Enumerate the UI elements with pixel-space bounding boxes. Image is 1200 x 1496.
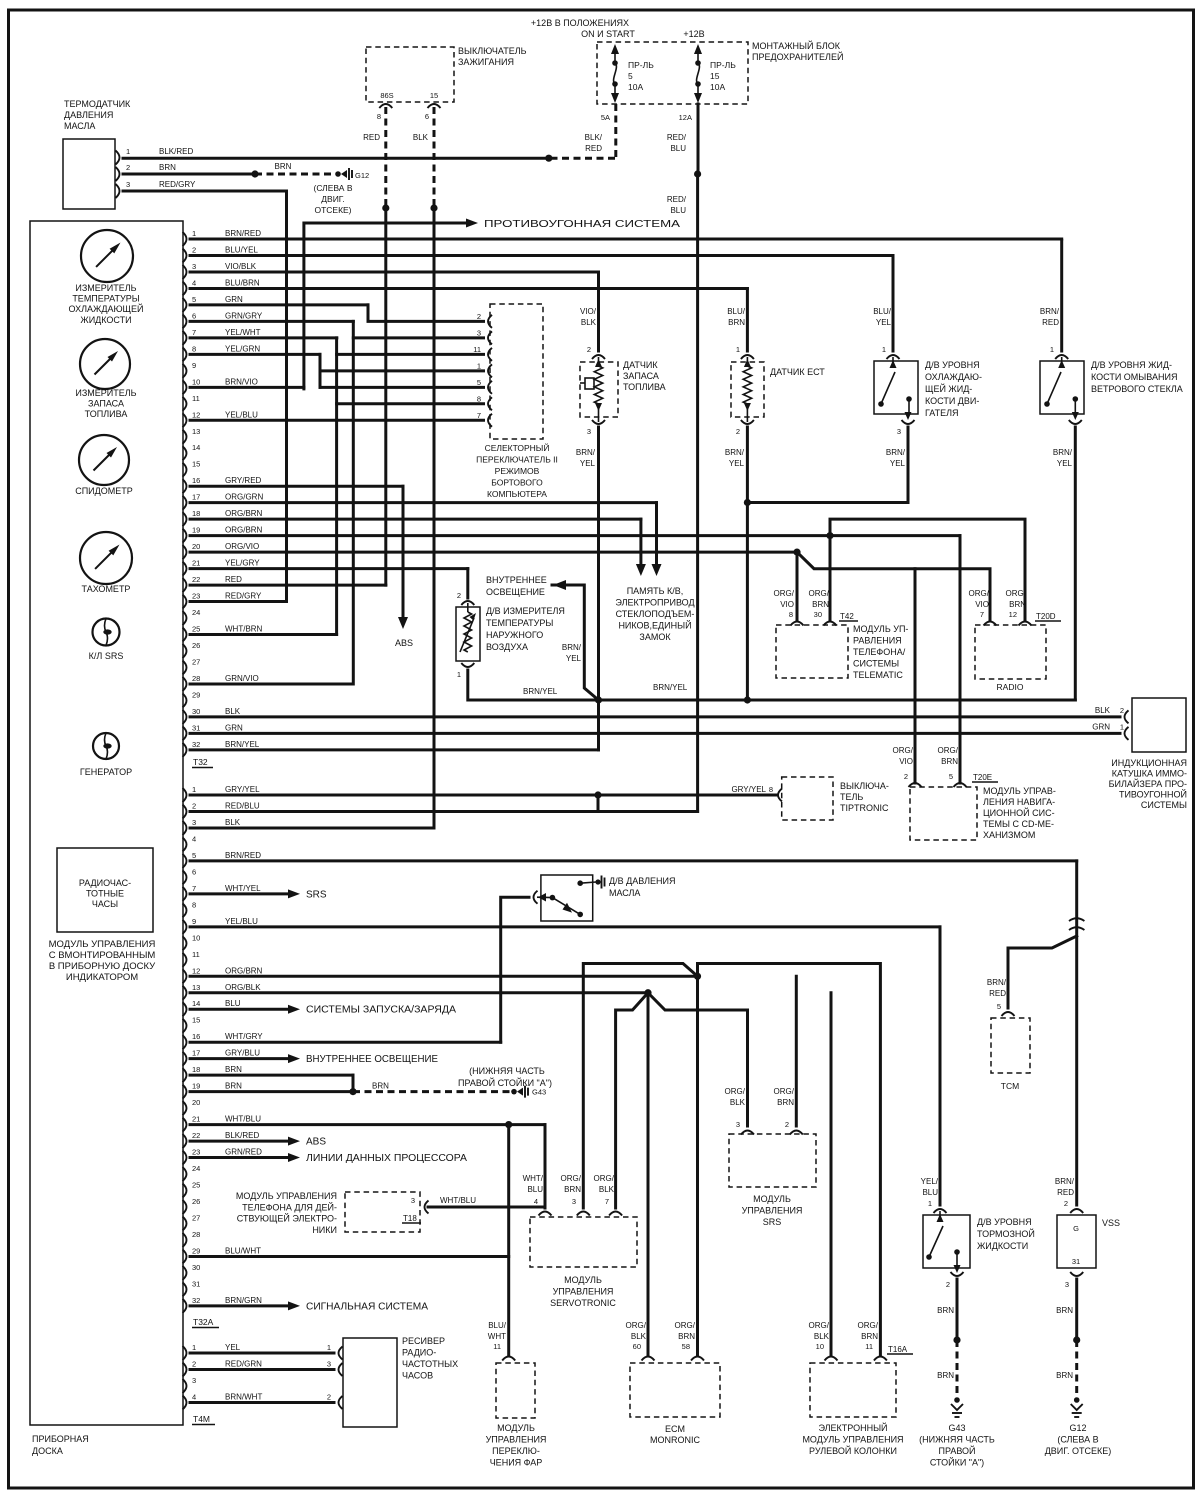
T32A pin 10 bracket [183, 936, 187, 950]
radio box [975, 625, 1046, 679]
svg-text:ЗАМОК: ЗАМОК [639, 632, 671, 642]
svg-text:10: 10 [192, 377, 200, 386]
svg-text:ORG/BRN: ORG/BRN [225, 509, 263, 518]
svg-text:BRN/: BRN/ [1053, 448, 1073, 457]
T32 pin 11 bracket [183, 397, 187, 411]
T32A pin 19 wire BRN [190, 1090, 353, 1093]
svg-text:Д/В УРОВНЯ: Д/В УРОВНЯ [925, 360, 980, 370]
junction dot GRY/YEL row to RED/BLU row link [594, 791, 601, 798]
svg-text:13: 13 [192, 427, 200, 436]
svg-text:3: 3 [736, 1120, 740, 1129]
radio clock receiver box [343, 1338, 397, 1427]
svg-text:25: 25 [192, 625, 200, 634]
svg-text:2: 2 [1120, 706, 1124, 715]
svg-text:10А: 10А [710, 82, 725, 92]
wire RED/BLU from fuse 12A down [697, 104, 700, 135]
svg-text:3: 3 [192, 818, 196, 827]
svg-text:5: 5 [949, 772, 953, 781]
sensor pin 1 bracket [116, 151, 120, 165]
svg-text:СТЕКЛОПОДЪЕМ-: СТЕКЛОПОДЪЕМ- [616, 609, 695, 619]
svg-text:1: 1 [477, 361, 481, 370]
signal system arrow from T32A pin 32 [288, 1301, 300, 1310]
svg-text:ПР-ЛЬ: ПР-ЛЬ [710, 60, 736, 70]
svg-text:5А: 5А [601, 113, 610, 122]
T32A pin 30 bracket [183, 1266, 187, 1280]
svg-text:ВЫКЛЮЧАТЕЛЬ: ВЫКЛЮЧАТЕЛЬ [458, 46, 527, 56]
T32A pin 9 bracket [183, 920, 187, 934]
svg-text:ПЕРЕКЛЮ-: ПЕРЕКЛЮ- [492, 1446, 540, 1456]
T32 pin 2 wire BLU/YEL [190, 254, 893, 257]
svg-text:YEL: YEL [729, 459, 745, 468]
svg-text:ОТСЕКЕ): ОТСЕКЕ) [314, 205, 351, 215]
sensor pin 2 bracket [116, 167, 120, 181]
svg-text:BRN/WHT: BRN/WHT [225, 1393, 262, 1402]
anti-theft system arrow [305, 222, 466, 225]
svg-text:ТИВОУГОННОЙ: ТИВОУГОННОЙ [1119, 789, 1187, 800]
svg-text:2: 2 [126, 163, 130, 172]
svg-text:25: 25 [192, 1181, 200, 1190]
wire BLU/BRN riser from T32 pin4 to ECT sensor [746, 288, 749, 351]
T32 pin 22 bracket [183, 578, 187, 592]
svg-text:ORG/: ORG/ [774, 1087, 795, 1096]
T32A pin 5 wire BRN/RED [190, 859, 1077, 862]
svg-text:YEL/GRY: YEL/GRY [225, 559, 260, 568]
svg-text:BRN/: BRN/ [1040, 307, 1060, 316]
svg-text:5: 5 [628, 71, 633, 81]
svg-text:ORG/: ORG/ [1006, 589, 1027, 598]
T32A pin 15 bracket [183, 1019, 187, 1033]
svg-text:RED/BLU: RED/BLU [225, 801, 260, 810]
svg-text:1: 1 [1120, 723, 1124, 732]
T32 pin 32 wire BRN/YEL [190, 748, 599, 751]
svg-text:BRN: BRN [937, 1306, 954, 1315]
svg-text:3: 3 [572, 1197, 576, 1206]
svg-text:1: 1 [882, 345, 886, 354]
T32A pin 17 bracket [183, 1052, 187, 1066]
svg-text:22: 22 [192, 1131, 200, 1140]
svg-text:ЦИОННОЙ СИС-: ЦИОННОЙ СИС- [983, 807, 1055, 818]
T32 pin 31 wire GRN [190, 732, 1120, 735]
T32 pin 5 wire GRN [190, 303, 368, 306]
svg-text:VSS: VSS [1102, 1218, 1120, 1228]
wire GRN jog T32 pin5 to selector pin 2 [368, 305, 484, 321]
svg-text:BLK/: BLK/ [585, 133, 603, 142]
svg-text:ЧАСОВ: ЧАСОВ [402, 1371, 433, 1381]
svg-text:ВОЗДУХА: ВОЗДУХА [486, 642, 528, 652]
svg-text:BRN/YEL: BRN/YEL [653, 683, 688, 692]
svg-text:1: 1 [192, 785, 196, 794]
T32 pin 1 wire BRN/RED [190, 238, 1062, 241]
svg-text:YEL: YEL [890, 459, 906, 468]
svg-text:BLU/YEL: BLU/YEL [225, 245, 258, 254]
svg-text:BRN/YEL: BRN/YEL [225, 740, 260, 749]
svg-text:КОСТИ ДВИ-: КОСТИ ДВИ- [925, 396, 979, 406]
svg-text:БОРТОВОГО: БОРТОВОГО [491, 478, 543, 488]
svg-text:BRN: BRN [564, 1185, 581, 1194]
svg-text:BLU: BLU [670, 206, 686, 215]
svg-text:20: 20 [192, 1098, 200, 1107]
selector switch pin 1 bracket [488, 364, 492, 377]
svg-text:T18: T18 [403, 1214, 417, 1223]
svg-text:SRS: SRS [763, 1217, 782, 1227]
svg-text:ДАТЧИК: ДАТЧИК [623, 360, 658, 370]
oil pressure switch bracket [534, 891, 538, 904]
wire YEL/GRN riser T32 pin8 down to selector pin 5 row [319, 354, 322, 387]
svg-text:BRN: BRN [225, 1065, 242, 1074]
svg-text:18: 18 [192, 1065, 200, 1074]
svg-text:YEL/BLU: YEL/BLU [225, 410, 258, 419]
wire RED from ignition 86S (dashed then solid) [384, 107, 387, 208]
svg-text:RED: RED [1042, 318, 1059, 327]
wire BLK from ignition 15 (dashed then solid) [433, 107, 436, 208]
svg-text:ПРАВОЙ СТОЙКИ "А"): ПРАВОЙ СТОЙКИ "А") [458, 1077, 552, 1088]
T32 pin 17 bracket [183, 496, 187, 510]
wire GRN/GRY long riser T32 pin6 down to pin28 row [352, 321, 355, 684]
svg-text:8: 8 [769, 785, 773, 794]
svg-text:28: 28 [192, 674, 200, 683]
svg-text:2: 2 [587, 345, 591, 354]
T32A pin 16 wire WHT/GRY [190, 1041, 501, 1044]
sensor pin 3 bracket [116, 184, 120, 198]
dashed BRN wire to ground G43 [353, 1090, 510, 1093]
svg-text:15: 15 [192, 460, 200, 469]
svg-text:К/Л SRS: К/Л SRS [89, 651, 124, 661]
svg-text:11: 11 [192, 394, 200, 403]
T32A pin 17 wire GRY/BLU [190, 1057, 288, 1060]
svg-text:ДВИГ.: ДВИГ. [321, 194, 344, 204]
T32 pin 4 bracket [183, 281, 187, 295]
svg-text:G12: G12 [1069, 1423, 1086, 1433]
T32 pin 20 wire ORG/VIO [190, 551, 797, 554]
svg-text:СИГНАЛЬНАЯ СИСТЕМА: СИГНАЛЬНАЯ СИСТЕМА [306, 1301, 428, 1312]
T32A pin 32 wire BRN/GRN [190, 1304, 288, 1307]
svg-text:ABS: ABS [395, 638, 413, 648]
svg-text:2: 2 [192, 245, 196, 254]
T32A pin 22 bracket [183, 1134, 187, 1148]
svg-text:22: 22 [192, 575, 200, 584]
svg-text:GRY/BLU: GRY/BLU [225, 1049, 260, 1058]
T4M pin 4 bracket [183, 1396, 187, 1410]
svg-text:YEL: YEL [1057, 459, 1073, 468]
ignition switch box (ВЫКЛЮЧАТЕЛЬ ЗАЖИГАНИЯ) [366, 47, 454, 102]
T32 pin 8 wire YEL/GRN [190, 353, 320, 356]
svg-text:ORG/: ORG/ [938, 746, 959, 755]
svg-text:RED: RED [225, 575, 242, 584]
svg-text:BLK: BLK [1095, 706, 1111, 715]
T32 pin 25 wire WHT/BRN [190, 633, 337, 636]
svg-text:ТЕМПЕРАТУРЫ: ТЕМПЕРАТУРЫ [486, 618, 553, 628]
svg-text:SRS: SRS [306, 889, 327, 900]
svg-text:12: 12 [192, 410, 200, 419]
svg-text:2: 2 [946, 1280, 950, 1289]
svg-text:ИНДУКЦИОННАЯ: ИНДУКЦИОННАЯ [1111, 758, 1187, 768]
svg-text:ORG/: ORG/ [858, 1321, 879, 1330]
selector switch box (dashed) [490, 304, 543, 439]
svg-text:3: 3 [897, 427, 901, 436]
svg-text:20: 20 [192, 542, 200, 551]
svg-text:ТАХОМЕТР: ТАХОМЕТР [82, 584, 131, 594]
svg-text:9: 9 [192, 361, 196, 370]
svg-text:8: 8 [789, 610, 793, 619]
junction dot BLK/RED node [545, 155, 552, 162]
svg-text:1: 1 [1050, 345, 1054, 354]
svg-text:РАДИО-: РАДИО- [402, 1348, 436, 1358]
fuel gauge [80, 339, 130, 389]
T32 pin 23 wire RED/GRY [190, 600, 287, 603]
svg-text:29: 29 [192, 690, 200, 699]
svg-text:ПЕРЕКЛЮЧАТЕЛЬ II: ПЕРЕКЛЮЧАТЕЛЬ II [476, 455, 558, 465]
svg-text:YEL: YEL [876, 318, 892, 327]
T32 pin 27 bracket [183, 660, 187, 674]
processor data lines arrow from T32A pin 23 [288, 1153, 300, 1162]
svg-text:BLU/WHT: BLU/WHT [225, 1246, 261, 1255]
brake fluid switch blade [926, 1254, 932, 1260]
svg-text:ВЕТРОВОГО СТЕКЛА: ВЕТРОВОГО СТЕКЛА [1091, 384, 1183, 394]
ignition pin 86S bracket [379, 104, 392, 108]
svg-text:ДОСКА: ДОСКА [32, 1446, 63, 1456]
wire BRN/YEL link to coolant level switch [747, 501, 908, 504]
svg-text:4: 4 [192, 834, 196, 843]
T32A pin 6 bracket [183, 870, 187, 884]
svg-text:С ВМОНТИРОВАННЫМ: С ВМОНТИРОВАННЫМ [49, 950, 156, 961]
T32 pin 15 bracket [183, 463, 187, 477]
wire ORG/BRN branch to SRS module pin 2 [795, 976, 798, 1126]
oil switch blade [550, 895, 556, 901]
junction dot ECT to coolant-switch link [744, 499, 751, 506]
svg-text:РАВЛЕНИЯ: РАВЛЕНИЯ [853, 636, 902, 646]
inline connector chevrons on BRN/RED wire [1069, 918, 1084, 921]
T32 pin 30 bracket [183, 710, 187, 724]
svg-text:3: 3 [327, 1360, 331, 1369]
T32A pin 1 bracket [183, 788, 187, 802]
svg-text:2: 2 [477, 312, 481, 321]
oil pressure switch box [541, 875, 593, 921]
svg-text:RED/GRY: RED/GRY [159, 180, 196, 189]
svg-text:VIO/: VIO/ [580, 307, 597, 316]
T32 pin 21 wire YEL/GRY [190, 567, 468, 570]
svg-text:2: 2 [785, 1120, 789, 1129]
svg-text:60: 60 [633, 1342, 641, 1351]
svg-text:58: 58 [682, 1342, 690, 1351]
svg-text:15: 15 [430, 91, 438, 100]
svg-text:ЧАСЫ: ЧАСЫ [92, 899, 118, 909]
phone module box T18 [345, 1192, 420, 1232]
svg-text:МОДУЛЬ УП-: МОДУЛЬ УП- [853, 624, 908, 634]
fuse 15 10A [694, 44, 702, 54]
svg-text:ORG/BRN: ORG/BRN [225, 966, 263, 975]
T32 pin 19 wire ORG/BRN [190, 534, 960, 537]
svg-text:GRN/VIO: GRN/VIO [225, 674, 259, 683]
T32A pin 25 bracket [183, 1184, 187, 1198]
T32A pin 26 bracket [183, 1200, 187, 1214]
T18 pin 3 bracket [425, 1201, 429, 1214]
headlight switching module box [496, 1363, 535, 1418]
svg-text:T20E: T20E [973, 773, 992, 782]
washer fluid level switch box [1040, 361, 1084, 414]
svg-text:10: 10 [816, 1342, 824, 1351]
svg-text:ORG/: ORG/ [969, 589, 990, 598]
wire GRY/RED T32 pin16 riser to ABS arrow [402, 486, 405, 617]
svg-text:BRN/: BRN/ [1055, 1177, 1075, 1186]
selector switch pin 7 bracket [488, 414, 492, 427]
T32 pin 2 bracket [183, 248, 187, 262]
T32A pin 12 bracket [183, 969, 187, 983]
T32A pin 22 wire BLK/RED [190, 1140, 288, 1143]
wire BRN/YEL from ECT down to BRN/YEL bus [746, 427, 749, 700]
wire RED/GRY from sensor pin 3 to T32 pin 23 riser [123, 191, 287, 602]
svg-text:BLU: BLU [225, 999, 241, 1008]
T32A pin 2 bracket [183, 804, 187, 818]
svg-text:23: 23 [192, 592, 200, 601]
brake fluid switch pin 2 [954, 1265, 961, 1273]
start/charge systems arrow from T32A pin 14 [288, 1005, 300, 1014]
T32A pin 18 bracket [183, 1068, 187, 1082]
svg-text:ДАТЧИК ЕСТ: ДАТЧИК ЕСТ [770, 367, 825, 377]
T32A pin 7 wire WHT/YEL [190, 892, 288, 895]
speedometer gauge [79, 435, 129, 485]
svg-text:14: 14 [192, 999, 200, 1008]
BRN/YEL bus horizontal [599, 699, 1076, 702]
svg-text:TCM: TCM [1001, 1081, 1019, 1091]
junction dot on RED/BLU [694, 170, 701, 177]
junction dot T32 pin19 row at T42 riser [826, 532, 833, 539]
T32 pin 9 bracket [183, 364, 187, 378]
wire ORG/GRN T32 pin17 riser to memory arrow right [655, 503, 658, 565]
wire BRN/RED branch to TCM [1008, 936, 1077, 1008]
svg-text:BRN: BRN [1056, 1306, 1073, 1315]
T32 pin 24 bracket [183, 611, 187, 625]
svg-text:BLU/BRN: BLU/BRN [225, 278, 260, 287]
wire VIO/BLK riser from T32 pin3 to fuel sensor [597, 272, 600, 351]
junction dot ORG/BRN bus T32A pin12 [694, 973, 701, 980]
svg-text:11: 11 [493, 1342, 501, 1351]
fuse 5 10A [611, 44, 619, 54]
svg-text:BLK/RED: BLK/RED [159, 147, 193, 156]
svg-text:6: 6 [192, 867, 196, 876]
T32 pin 21 bracket [183, 562, 187, 576]
svg-text:TIPTRONIC: TIPTRONIC [840, 803, 889, 813]
coil pin 1 bracket [1125, 727, 1129, 740]
svg-text:4: 4 [192, 1393, 196, 1402]
svg-text:5: 5 [192, 295, 196, 304]
T32 pin 12 wire YEL/BLU [190, 419, 484, 422]
T32 pin 26 bracket [183, 644, 187, 658]
svg-text:СПИДОМЕТР: СПИДОМЕТР [75, 486, 133, 496]
wire to selector pin 3 [353, 336, 483, 339]
svg-text:РУЛЕВОЙ КОЛОНКИ: РУЛЕВОЙ КОЛОНКИ [809, 1445, 897, 1456]
svg-text:ПРИБОРНАЯ: ПРИБОРНАЯ [32, 1434, 89, 1444]
svg-text:BRN/: BRN/ [725, 448, 745, 457]
outside air temperature sensor box [456, 607, 480, 661]
svg-text:15: 15 [710, 71, 720, 81]
svg-text:Д/В ИЗМЕРИТЕЛЯ: Д/В ИЗМЕРИТЕЛЯ [486, 606, 565, 616]
T32A pin 24 bracket [183, 1167, 187, 1181]
svg-text:2: 2 [1064, 1199, 1068, 1208]
svg-text:+12В В ПОЛОЖЕНИЯХ: +12В В ПОЛОЖЕНИЯХ [531, 18, 629, 28]
T32 pin 18 wire ORG/BRN [190, 518, 641, 521]
instrument cluster box (ПРИБОРНАЯ ДОСКА) [30, 221, 183, 1425]
svg-text:YEL/: YEL/ [921, 1177, 939, 1186]
T32A pin 29 wire BLU/WHT [190, 1255, 509, 1258]
svg-text:8: 8 [192, 900, 196, 909]
svg-text:ORG/: ORG/ [626, 1321, 647, 1330]
svg-text:WHT/YEL: WHT/YEL [225, 884, 261, 893]
svg-text:GRN: GRN [225, 723, 243, 732]
memory arrow left [636, 564, 646, 576]
wire ORG/BRN jog up-right to steering column module pin 11 [698, 964, 881, 1356]
svg-text:ЧАСТОТНЫХ: ЧАСТОТНЫХ [402, 1359, 458, 1369]
svg-text:10: 10 [192, 933, 200, 942]
svg-text:7: 7 [192, 884, 196, 893]
T32 pin 10 bracket [183, 380, 187, 394]
svg-text:RED/GRN: RED/GRN [225, 1360, 262, 1369]
svg-text:ПРОТИВОУГОННАЯ СИСТЕМА: ПРОТИВОУГОННАЯ СИСТЕМА [484, 219, 680, 230]
wire BRN T32A pin18 corner down to pin19 row [352, 1075, 355, 1091]
svg-text:21: 21 [192, 559, 200, 568]
T32 pin 4 wire BLU/BRN [190, 287, 747, 290]
ABS arrow down [398, 617, 408, 629]
telephone/telematic module box T42 [776, 625, 848, 678]
T32 pin 7 wire YEL/WHT [190, 336, 337, 339]
svg-text:23: 23 [192, 1148, 200, 1157]
wire WHT/GRY T32A pin16 riser to oil pressure switch [501, 897, 529, 1042]
T32 pin 16 wire GRY/RED [190, 485, 403, 488]
svg-text:MONRONIC: MONRONIC [650, 1435, 700, 1445]
T32 pin 29 bracket [183, 693, 187, 707]
svg-text:ТЕРМОДАТЧИК: ТЕРМОДАТЧИК [64, 99, 131, 109]
svg-text:RED/: RED/ [667, 133, 687, 142]
svg-text:ЖИДКОСТИ: ЖИДКОСТИ [977, 1241, 1028, 1251]
svg-text:4: 4 [534, 1197, 538, 1206]
svg-text:RED: RED [585, 144, 602, 153]
svg-text:GRY/YEL: GRY/YEL [731, 785, 766, 794]
svg-text:RADIO: RADIO [997, 682, 1024, 692]
svg-text:ЧЕНИЯ ФАР: ЧЕНИЯ ФАР [490, 1458, 543, 1468]
T32A pin 27 bracket [183, 1216, 187, 1230]
svg-text:BLK: BLK [599, 1185, 615, 1194]
T32A pin 21 wire WHT/BLU [190, 1123, 545, 1126]
wire BRN/RED from T32 pin1 down to washer level switch [1060, 240, 1063, 351]
svg-text:8: 8 [192, 344, 196, 353]
fuel level sensor box (ДАТЧИК ЗАПАСА ТОПЛИВА) [580, 362, 618, 417]
svg-text:BRN: BRN [728, 318, 745, 327]
ECT sensor bottom bracket pin 2 [741, 420, 754, 424]
wire ORG/BRN T32 pin19 corner to nav T20E pin 5 [959, 536, 962, 783]
T32A pin 23 wire GRN/RED [190, 1156, 288, 1159]
T32A pin 8 bracket [183, 903, 187, 917]
svg-text:BLU: BLU [527, 1185, 543, 1194]
T32A pin 1 wire GRY/YEL [190, 794, 777, 797]
svg-text:ABS: ABS [306, 1137, 326, 1148]
svg-text:КАТУШКА ИММО-: КАТУШКА ИММО- [1112, 769, 1187, 779]
svg-text:3: 3 [192, 1376, 196, 1385]
svg-text:GRN: GRN [1092, 723, 1110, 732]
svg-text:(НИЖНЯЯ ЧАСТЬ: (НИЖНЯЯ ЧАСТЬ [469, 1066, 545, 1076]
svg-text:BLK/RED: BLK/RED [225, 1131, 259, 1140]
radio clock box [57, 848, 153, 932]
svg-text:BLK: BLK [413, 133, 429, 142]
svg-text:15: 15 [192, 1016, 200, 1025]
svg-text:ТЕМПЕРАТУРЫ: ТЕМПЕРАТУРЫ [72, 294, 139, 304]
air temp sensor bottom bracket pin 1 [461, 663, 474, 667]
T32 pin 1 bracket [183, 232, 187, 246]
svg-text:YEL/GRN: YEL/GRN [225, 344, 260, 353]
svg-text:WHT/BLU: WHT/BLU [440, 1196, 476, 1205]
svg-text:1: 1 [457, 670, 461, 679]
svg-text:(СЛЕВА В: (СЛЕВА В [313, 183, 352, 193]
T32A pin 3 wire BLK [190, 826, 434, 829]
coolant switch blade [878, 401, 884, 407]
